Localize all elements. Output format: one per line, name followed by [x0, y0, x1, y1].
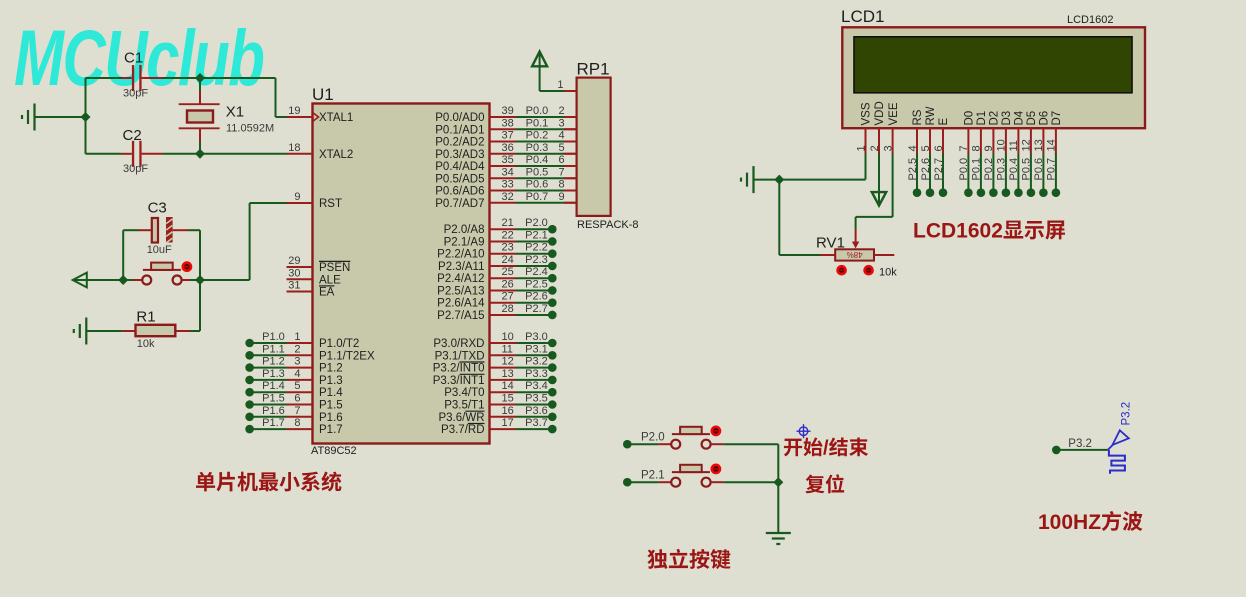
svg-text:27: 27	[502, 291, 514, 303]
svg-text:P3.2: P3.2	[1068, 438, 1092, 450]
svg-text:P3.5: P3.5	[525, 393, 548, 405]
svg-text:P2.7: P2.7	[933, 158, 945, 181]
svg-text:P0.1: P0.1	[526, 117, 549, 129]
svg-text:3: 3	[559, 117, 565, 129]
svg-text:P1.3: P1.3	[319, 375, 343, 387]
svg-text:P0.0/AD0: P0.0/AD0	[435, 112, 484, 124]
svg-text:P3.1/TXD: P3.1/TXD	[435, 350, 485, 362]
svg-text:P0.6/AD6: P0.6/AD6	[435, 186, 484, 198]
svg-text:3: 3	[294, 356, 300, 368]
svg-text:D7: D7	[1051, 111, 1063, 126]
svg-text:P2.1/A9: P2.1/A9	[444, 236, 485, 248]
svg-text:30pF: 30pF	[123, 88, 148, 100]
svg-text:28: 28	[502, 303, 514, 315]
svg-text:VSS: VSS	[861, 102, 873, 125]
svg-text:33: 33	[502, 179, 514, 191]
svg-text:13: 13	[1033, 139, 1045, 151]
svg-text:LCD1: LCD1	[841, 7, 884, 26]
svg-text:D5: D5	[1026, 111, 1038, 126]
svg-text:9: 9	[559, 191, 565, 203]
svg-text:P3.4/T0: P3.4/T0	[444, 387, 484, 399]
svg-text:25: 25	[502, 266, 514, 278]
svg-text:P1.4: P1.4	[262, 380, 285, 392]
svg-text:C2: C2	[123, 127, 142, 144]
svg-text:LCD1602: LCD1602	[1067, 14, 1113, 26]
svg-text:10k: 10k	[137, 338, 155, 350]
svg-text:10: 10	[996, 139, 1008, 151]
svg-text:P1.2: P1.2	[319, 363, 343, 375]
svg-text:30: 30	[288, 267, 300, 279]
svg-text:10k: 10k	[879, 267, 897, 279]
svg-text:P3.7/RD: P3.7/RD	[441, 424, 484, 436]
svg-text:P1.3: P1.3	[262, 368, 285, 380]
svg-text:RST: RST	[319, 198, 342, 210]
svg-text:P1.6: P1.6	[262, 405, 285, 417]
svg-text:31: 31	[288, 280, 300, 292]
svg-text:P1.4: P1.4	[319, 387, 343, 399]
svg-text:23: 23	[502, 242, 514, 254]
svg-text:35: 35	[502, 154, 514, 166]
svg-text:1: 1	[855, 145, 867, 151]
svg-text:P2.5: P2.5	[525, 278, 548, 290]
svg-text:2: 2	[294, 343, 300, 355]
svg-text:P1.1/T2EX: P1.1/T2EX	[319, 350, 375, 362]
svg-text:D1: D1	[976, 111, 988, 126]
svg-text:P3.2/INT0: P3.2/INT0	[433, 363, 485, 375]
svg-text:P3.6: P3.6	[525, 405, 548, 417]
svg-text:E: E	[938, 118, 950, 126]
svg-text:VDD: VDD	[874, 101, 886, 125]
svg-text:P0.3: P0.3	[996, 158, 1008, 181]
svg-text:D4: D4	[1014, 110, 1026, 125]
svg-text:48%: 48%	[847, 250, 863, 259]
svg-text:P1.1: P1.1	[262, 343, 285, 355]
svg-text:PSEN: PSEN	[319, 262, 350, 274]
svg-text:P3.7: P3.7	[525, 417, 548, 429]
svg-text:26: 26	[502, 278, 514, 290]
svg-text:8: 8	[971, 145, 983, 151]
svg-text:D3: D3	[1001, 111, 1013, 126]
svg-text:14: 14	[1046, 139, 1058, 151]
svg-text:11: 11	[502, 343, 513, 355]
svg-text:1: 1	[557, 79, 563, 91]
svg-text:P0.6: P0.6	[1033, 158, 1045, 181]
svg-text:11: 11	[1008, 140, 1020, 151]
svg-text:P1.6: P1.6	[319, 412, 343, 424]
svg-text:18: 18	[288, 142, 300, 154]
svg-text:9: 9	[294, 191, 300, 203]
svg-text:P2.2: P2.2	[525, 242, 548, 254]
svg-text:P2.7: P2.7	[525, 303, 548, 315]
svg-text:P2.1: P2.1	[525, 229, 548, 241]
svg-text:21: 21	[502, 217, 514, 229]
svg-text:34: 34	[502, 166, 514, 178]
svg-text:XTAL2: XTAL2	[319, 149, 353, 161]
svg-text:P3.2: P3.2	[525, 356, 548, 368]
svg-text:P2.1: P2.1	[641, 470, 665, 482]
svg-text:R1: R1	[136, 309, 155, 326]
svg-text:C1: C1	[124, 50, 143, 67]
svg-text:17: 17	[502, 417, 514, 429]
svg-text:100HZ: 100HZ	[1038, 511, 1101, 534]
svg-text:36: 36	[502, 142, 514, 154]
svg-text:1: 1	[294, 331, 300, 343]
svg-text:10uF: 10uF	[147, 244, 172, 256]
svg-text:16: 16	[502, 405, 514, 417]
svg-text:P2.4/A12: P2.4/A12	[437, 273, 484, 285]
svg-text:P3.3: P3.3	[525, 368, 548, 380]
svg-text:38: 38	[502, 117, 514, 129]
svg-text:XTAL1: XTAL1	[319, 112, 353, 124]
svg-text:RW: RW	[925, 106, 937, 125]
svg-text:12: 12	[1021, 139, 1033, 151]
svg-text:14: 14	[502, 380, 514, 392]
svg-text:11.0592M: 11.0592M	[226, 123, 274, 135]
svg-text:U1: U1	[312, 85, 334, 104]
svg-text:39: 39	[502, 105, 514, 117]
svg-text:P0.7: P0.7	[1046, 158, 1058, 181]
svg-text:D0: D0	[964, 111, 976, 126]
svg-text:6: 6	[933, 145, 945, 151]
svg-text:P3.3/INT1: P3.3/INT1	[433, 375, 485, 387]
svg-text:30pF: 30pF	[123, 163, 148, 175]
svg-text:2: 2	[869, 145, 881, 151]
svg-text:P3.5/T1: P3.5/T1	[444, 400, 484, 412]
svg-text:P0.2: P0.2	[983, 158, 995, 181]
svg-text:P0.6: P0.6	[526, 179, 549, 191]
svg-text:37: 37	[502, 130, 514, 142]
svg-text:2: 2	[559, 105, 565, 117]
svg-text:P0.0: P0.0	[526, 105, 549, 117]
svg-text:P0.3/AD3: P0.3/AD3	[435, 149, 484, 161]
svg-text:P2.6: P2.6	[920, 158, 932, 181]
svg-text:P1.0/T2: P1.0/T2	[319, 338, 359, 350]
svg-text:P3.2: P3.2	[1121, 402, 1133, 426]
svg-text:P2.0: P2.0	[641, 432, 665, 444]
svg-text:5: 5	[559, 142, 565, 154]
svg-text:P1.5: P1.5	[319, 400, 343, 412]
svg-text:29: 29	[288, 255, 300, 267]
svg-text:P2.6/A14: P2.6/A14	[437, 298, 485, 310]
svg-text:P0.5: P0.5	[1021, 158, 1033, 181]
svg-text:P3.0/RXD: P3.0/RXD	[433, 338, 484, 350]
svg-text:P2.3: P2.3	[525, 254, 548, 266]
svg-text:P0.0: P0.0	[958, 158, 970, 181]
svg-text:RS: RS	[912, 109, 924, 125]
svg-text:13: 13	[502, 368, 514, 380]
svg-text:P1.7: P1.7	[262, 417, 285, 429]
svg-text:4: 4	[559, 130, 565, 142]
svg-text:24: 24	[502, 254, 514, 266]
svg-text:P1.2: P1.2	[262, 356, 285, 368]
svg-text:12: 12	[502, 356, 514, 368]
svg-text:P2.2/A10: P2.2/A10	[437, 249, 484, 261]
svg-text:22: 22	[502, 229, 514, 241]
svg-text:RESPACK-8: RESPACK-8	[577, 219, 639, 231]
svg-text:VEE: VEE	[888, 102, 900, 125]
svg-text:AT89C52: AT89C52	[311, 445, 357, 457]
svg-text:8: 8	[294, 417, 300, 429]
svg-text:P2.0: P2.0	[525, 217, 548, 229]
svg-text:P3.0: P3.0	[525, 331, 548, 343]
svg-text:P1.7: P1.7	[319, 424, 343, 436]
svg-text:P0.2/AD2: P0.2/AD2	[435, 137, 484, 149]
svg-text:D6: D6	[1039, 111, 1051, 126]
svg-text:X1: X1	[226, 104, 244, 121]
svg-text:P0.4: P0.4	[1008, 158, 1020, 181]
svg-text:19: 19	[288, 105, 300, 117]
svg-text:7: 7	[958, 145, 970, 151]
svg-text:P0.1/AD1: P0.1/AD1	[435, 124, 484, 136]
svg-text:P0.1: P0.1	[971, 158, 983, 181]
svg-text:6: 6	[294, 393, 300, 405]
svg-text:RP1: RP1	[577, 60, 610, 79]
svg-text:C3: C3	[148, 200, 167, 217]
svg-text:P0.5/AD5: P0.5/AD5	[435, 173, 484, 185]
svg-text:5: 5	[294, 380, 300, 392]
svg-text:P0.7/AD7: P0.7/AD7	[435, 198, 484, 210]
svg-text:D2: D2	[989, 111, 1001, 126]
svg-text:P2.5: P2.5	[907, 158, 919, 181]
svg-text:P2.0/A8: P2.0/A8	[444, 224, 485, 236]
svg-text:P3.4: P3.4	[525, 380, 548, 392]
svg-text:P2.7/A15: P2.7/A15	[437, 310, 484, 322]
svg-text:P0.4/AD4: P0.4/AD4	[435, 161, 485, 173]
svg-text:P2.3/A11: P2.3/A11	[438, 261, 484, 273]
svg-text:15: 15	[502, 393, 514, 405]
svg-text:P0.5: P0.5	[526, 166, 549, 178]
svg-text:5: 5	[920, 145, 932, 151]
svg-text:10: 10	[502, 331, 514, 343]
svg-text:ALE: ALE	[319, 274, 341, 286]
svg-text:P0.4: P0.4	[526, 154, 549, 166]
svg-text:32: 32	[502, 191, 514, 203]
svg-text:8: 8	[559, 179, 565, 191]
svg-text:LCD1602: LCD1602	[913, 220, 1003, 243]
svg-text:EA: EA	[319, 287, 335, 299]
svg-text:P2.4: P2.4	[525, 266, 548, 278]
svg-text:3: 3	[882, 145, 894, 151]
svg-text:RV1: RV1	[816, 235, 845, 252]
svg-text:P0.3: P0.3	[526, 142, 549, 154]
svg-text:9: 9	[983, 145, 995, 151]
svg-text:4: 4	[294, 368, 300, 380]
svg-text:/: /	[823, 438, 829, 460]
svg-text:6: 6	[559, 154, 565, 166]
svg-text:P1.0: P1.0	[262, 331, 285, 343]
svg-text:P0.2: P0.2	[526, 130, 549, 142]
svg-text:P0.7: P0.7	[526, 191, 549, 203]
svg-text:7: 7	[559, 166, 565, 178]
svg-text:P3.1: P3.1	[525, 343, 548, 355]
svg-text:4: 4	[907, 145, 919, 151]
svg-text:P2.6: P2.6	[525, 291, 548, 303]
svg-text:7: 7	[294, 405, 300, 417]
svg-text:P3.6/WR: P3.6/WR	[438, 412, 484, 424]
svg-text:P1.5: P1.5	[262, 393, 285, 405]
svg-text:P2.5/A13: P2.5/A13	[437, 285, 484, 297]
